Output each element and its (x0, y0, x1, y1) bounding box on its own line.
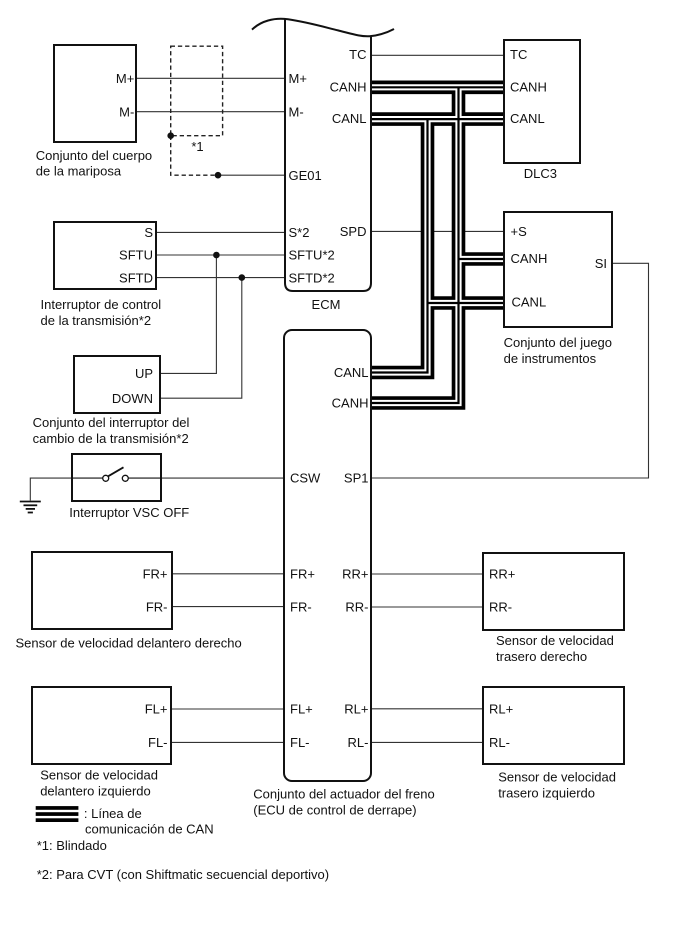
shield drain dashed wire to GE01 (171, 136, 218, 176)
wire SI (instrument cluster to SP1 of brake actuator) (371, 263, 649, 478)
svg-text:delantero izquierdo: delantero izquierdo (40, 783, 151, 798)
svg-text:FR-: FR- (290, 599, 312, 614)
wire TC (ECM to DLC3) (371, 54, 504, 56)
svg-text:de la mariposa: de la mariposa (36, 164, 122, 179)
svg-text:CANL: CANL (510, 111, 545, 126)
svg-text:FL+: FL+ (290, 702, 313, 717)
rear right speed sensor box (483, 553, 624, 630)
svg-text:trasero derecho: trasero derecho (496, 649, 587, 664)
svg-text:TC: TC (349, 47, 366, 62)
svg-text:SFTU*2: SFTU*2 (289, 248, 335, 263)
wire FR+ (172, 573, 285, 575)
svg-text:SPD: SPD (340, 224, 367, 239)
svg-text:*1: Blindado: *1: Blindado (37, 838, 107, 853)
wire FR- (172, 606, 285, 608)
svg-text:FR-: FR- (146, 599, 168, 614)
CAN trunk CANH branch B (to instruments and brake actuator) (371, 87, 459, 403)
ECM box (torn top edge) (252, 19, 394, 291)
wire SPD (ECM to instrument +S) (371, 230, 505, 232)
svg-text:TC: TC (510, 47, 527, 62)
wire SFTD to SFTD*2 (156, 277, 285, 279)
wire RL+ (371, 708, 483, 710)
svg-text:FR+: FR+ (143, 567, 168, 582)
wire DOWN (shift switch to SFTD junction) (160, 278, 242, 399)
wire RL- (371, 741, 483, 743)
brake actuator pin labels right side (332, 365, 369, 750)
svg-text:de instrumentos: de instrumentos (504, 351, 597, 366)
DLC3 box (504, 40, 580, 163)
junction dot GE01 drain (215, 172, 222, 179)
svg-text:UP: UP (135, 366, 153, 381)
CAN main CANH (ECM to DLC3) (371, 81, 504, 95)
svg-text:CANH: CANH (511, 251, 548, 266)
svg-text:M+: M+ (289, 71, 307, 86)
junction dot SFTU (213, 252, 220, 259)
svg-text:CANH: CANH (332, 396, 369, 411)
svg-text:RR+: RR+ (489, 567, 515, 582)
svg-text:Sensor de velocidad delantero: Sensor de velocidad delantero derecho (16, 636, 242, 651)
brake actuator pin labels left side (290, 471, 321, 750)
svg-text:RL+: RL+ (489, 702, 513, 717)
svg-text:RR+: RR+ (342, 567, 368, 582)
svg-text:SFTD: SFTD (119, 270, 153, 285)
CAN bus striped lines: layer 1 black (371, 87, 504, 403)
svg-text:S*2: S*2 (289, 225, 310, 240)
svg-text:RL-: RL- (489, 735, 510, 750)
wire RR+ (371, 573, 483, 575)
CAN bus striped lines: layer 3 black core (371, 87, 504, 403)
front right speed sensor box (32, 552, 172, 629)
wire CSW (ground, VSC switch to brake actuator) (30, 478, 284, 500)
junction dot shield box corner (167, 132, 174, 139)
svg-text:FL-: FL- (148, 735, 168, 750)
svg-text:DLC3: DLC3 (524, 166, 557, 181)
svg-text:M-: M- (119, 104, 134, 119)
svg-text:DOWN: DOWN (112, 391, 153, 406)
instrument cluster box (504, 212, 612, 327)
svg-text:SFTU: SFTU (119, 248, 153, 263)
CAN main CANL (ECM to DLC3) (371, 112, 504, 126)
wire UP (shift switch up to SFTU junction) (160, 255, 217, 373)
svg-text:CANL: CANL (332, 111, 367, 126)
throttle body box (54, 45, 136, 142)
svg-text:Interruptor VSC OFF: Interruptor VSC OFF (69, 505, 189, 520)
svg-text:Conjunto del interruptor del: Conjunto del interruptor del (33, 415, 190, 430)
svg-text:S: S (144, 225, 153, 240)
shield dashed box *1 around M+/M- wires (171, 46, 223, 136)
wire S to S*2 (156, 231, 285, 233)
svg-text:FL-: FL- (290, 735, 310, 750)
svg-text:de la transmisión*2: de la transmisión*2 (41, 313, 152, 328)
svg-text:+S: +S (511, 224, 528, 239)
svg-text:comunicación de CAN: comunicación de CAN (85, 821, 214, 836)
brake actuator box (284, 330, 371, 781)
VSC switch symbol (73, 467, 162, 481)
svg-text:CANL: CANL (334, 365, 369, 380)
CAN bus striped lines: layer 2 white (371, 87, 504, 403)
ECM pin labels right (330, 47, 367, 239)
svg-text:SP1: SP1 (344, 471, 369, 486)
svg-text:Conjunto del cuerpo: Conjunto del cuerpo (36, 148, 152, 163)
ground symbol (20, 502, 41, 513)
svg-text:Conjunto del actuador del fren: Conjunto del actuador del freno (253, 786, 434, 801)
svg-text:ECM: ECM (312, 297, 341, 312)
svg-text:CANL: CANL (512, 295, 547, 310)
wire M- (throttle body to ECM) (136, 111, 285, 113)
wire FL+ (171, 708, 284, 710)
svg-text:(ECU de control de derrape): (ECU de control de derrape) (253, 802, 416, 817)
wire GE01 (solid segment to ECM) (218, 174, 285, 176)
transmission control switch box (54, 222, 156, 289)
ECM pin labels left (289, 71, 335, 285)
svg-text:CANH: CANH (510, 79, 547, 94)
wire RR- (371, 606, 483, 608)
svg-text:Interruptor de control: Interruptor de control (41, 297, 162, 312)
svg-text:RL+: RL+ (344, 702, 368, 717)
svg-text:SFTD*2: SFTD*2 (289, 270, 335, 285)
svg-text:trasero izquierdo: trasero izquierdo (498, 786, 595, 801)
junction dot SFTD (239, 274, 246, 281)
svg-text:M-: M- (289, 104, 304, 119)
svg-text:FR+: FR+ (290, 567, 315, 582)
wire FL- (171, 741, 284, 743)
svg-text:cambio de la transmisión*2: cambio de la transmisión*2 (33, 431, 189, 446)
svg-text:Sensor de velocidad: Sensor de velocidad (498, 770, 616, 785)
wire SFTU to SFTU*2 (156, 254, 285, 256)
svg-text:GE01: GE01 (289, 168, 322, 183)
shift switch box (74, 356, 160, 413)
legend CAN line swatch (36, 806, 79, 822)
VSC OFF switch box (72, 454, 161, 501)
svg-text:: Línea de: : Línea de (84, 806, 142, 821)
svg-text:SI: SI (595, 256, 607, 271)
svg-text:Sensor de velocidad: Sensor de velocidad (40, 767, 158, 782)
svg-text:CANH: CANH (330, 79, 367, 94)
svg-text:RR-: RR- (345, 600, 368, 615)
svg-text:Conjunto del juego: Conjunto del juego (504, 335, 612, 350)
svg-text:M+: M+ (116, 71, 134, 86)
front left speed sensor box (32, 687, 171, 764)
svg-text:RR-: RR- (489, 600, 512, 615)
rear left speed sensor box (483, 687, 624, 764)
svg-text:FL+: FL+ (145, 702, 168, 717)
svg-text:*1: *1 (191, 139, 203, 154)
wire M+ (throttle body to ECM) (136, 77, 285, 79)
svg-text:RL-: RL- (348, 735, 369, 750)
svg-text:*2: Para CVT (con Shiftmatic s: *2: Para CVT (con Shiftmatic secuencial … (37, 867, 329, 882)
CAN trunk CANL branch A (371, 119, 428, 372)
svg-text:CSW: CSW (290, 471, 321, 486)
svg-text:Sensor de velocidad: Sensor de velocidad (496, 633, 614, 648)
